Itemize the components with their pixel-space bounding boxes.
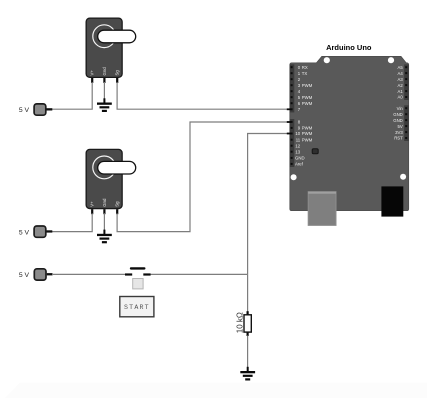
svg-text:13: 13: [295, 149, 300, 154]
svg-text:3V3: 3V3: [395, 130, 403, 135]
svg-text:A1: A1: [398, 89, 404, 94]
power jack: [381, 186, 403, 216]
onboard component near pin 13: [312, 149, 318, 154]
right pin dots: [405, 66, 407, 139]
svg-text:12: 12: [295, 143, 300, 148]
left pin dots group1: [291, 66, 293, 110]
wire tip pin 10: [287, 133, 291, 135]
svg-text:PWM: PWM: [302, 83, 313, 88]
resistor R1: [244, 311, 251, 336]
digital header 8-AREF: [290, 119, 295, 167]
svg-text:A2: A2: [398, 83, 404, 88]
svg-text:RST: RST: [394, 136, 403, 141]
svg-text:PWM: PWM: [302, 95, 313, 100]
svg-text:RX: RX: [302, 65, 308, 70]
wire junction node down to resistor: [247, 274, 249, 312]
ground symbol (S2): [97, 230, 112, 244]
svg-text:A0: A0: [398, 95, 404, 100]
svg-text:PWM: PWM: [302, 131, 313, 136]
ground symbol (R1): [240, 367, 255, 381]
svg-text:PWM: PWM: [302, 126, 313, 131]
5V connector 3: [34, 269, 52, 280]
wire pushbutton to node junction: [150, 273, 248, 275]
Arduino Uno board U1: [290, 56, 409, 210]
pushbutton START: [125, 267, 151, 289]
svg-text:GND: GND: [393, 112, 403, 117]
5V connector 2: [34, 226, 52, 237]
sensor S2 (optical sensor, middle): [86, 149, 136, 214]
svg-text:5V: 5V: [398, 124, 403, 129]
wire 5V supply 1 to S1 V+: [52, 82, 92, 109]
svg-text:START: START: [124, 304, 150, 311]
svg-text:Arduino Uno: Arduino Uno: [326, 43, 372, 52]
mounting hole bottom-left: [291, 174, 297, 180]
svg-text:10 kΩ: 10 kΩ: [236, 312, 245, 333]
wire 5V supply 2 to S2 V+: [52, 213, 92, 231]
label START: [120, 297, 154, 317]
left pin dots group2: [291, 121, 293, 165]
mounting hole bottom-right: [400, 174, 406, 180]
svg-text:A3: A3: [398, 77, 404, 82]
wire resistor to ground: [247, 336, 249, 368]
svg-text:Vin: Vin: [397, 106, 404, 111]
sensor S1 (optical sensor, top): [86, 18, 136, 83]
ground symbol (S1): [97, 98, 112, 112]
svg-text:11: 11: [296, 137, 301, 142]
svg-text:GND: GND: [393, 118, 403, 123]
pin labels analog and power: [393, 65, 403, 141]
wire tip pin 8: [287, 121, 291, 123]
svg-text:5 V: 5 V: [19, 272, 30, 279]
pin labels digital 8-AREF: [295, 120, 313, 167]
wire tip pin 7: [287, 108, 291, 110]
wire S2 Gnd pin to ground: [103, 213, 105, 231]
svg-text:A5: A5: [398, 65, 404, 70]
mounting hole top-right: [388, 57, 394, 63]
mounting hole top-left: [324, 57, 330, 63]
svg-text:TX: TX: [302, 71, 308, 76]
wire junction node to Arduino pin 10: [248, 134, 289, 275]
analog header A5-A0: [404, 64, 409, 100]
svg-text:PWM: PWM: [302, 101, 313, 106]
svg-text:Aref: Aref: [295, 162, 304, 167]
wire 5V supply 3 to pushbutton: [52, 273, 126, 275]
svg-text:10: 10: [295, 131, 300, 136]
5V connector 1: [34, 104, 52, 115]
wire S2 Sg to Arduino pin 8: [117, 122, 288, 232]
svg-text:GND: GND: [295, 156, 305, 161]
svg-text:A4: A4: [398, 71, 404, 76]
svg-text:5 V: 5 V: [19, 229, 30, 236]
wire S1 Sg to Arduino pin 7: [117, 82, 288, 109]
USB connector: [308, 192, 336, 226]
pin labels digital 0-7: [298, 65, 313, 112]
svg-text:5 V: 5 V: [19, 107, 30, 114]
svg-text:PWM: PWM: [302, 137, 313, 142]
wire S1 Gnd pin to ground: [103, 82, 105, 100]
faint page-bottom shading: [5, 383, 427, 398]
digital header 0-7: [290, 64, 295, 112]
power header Vin-RST: [404, 105, 409, 141]
